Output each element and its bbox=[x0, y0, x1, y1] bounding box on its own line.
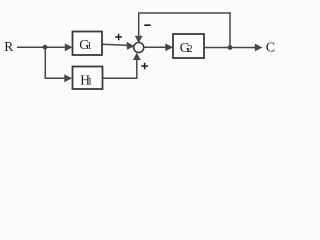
summing junction circle bbox=[134, 43, 144, 53]
arrowhead into G1 bbox=[65, 43, 73, 51]
junction dot after R bbox=[43, 45, 48, 50]
junction dot on output bbox=[228, 45, 233, 50]
wire R to G1 bbox=[17, 46, 67, 48]
arrowhead to C bbox=[255, 44, 263, 52]
arrowhead into G2 bbox=[165, 43, 173, 51]
wire branch down from R node bbox=[44, 47, 46, 78]
plus sign (H1 input to junction) bbox=[141, 63, 148, 70]
svg-text:R: R bbox=[4, 39, 13, 54]
wire G2 to output C bbox=[204, 47, 257, 49]
block G1 bbox=[73, 32, 103, 56]
feedback wire down into junction (top) bbox=[138, 13, 140, 38]
arrowhead into summing junction (top) bbox=[135, 36, 143, 43]
svg-text:1: 1 bbox=[87, 41, 92, 52]
wire junction to G2 bbox=[144, 46, 167, 48]
block H1 bbox=[73, 67, 103, 90]
plus sign (G1 input to junction) bbox=[115, 34, 122, 41]
minus sign (feedback) bbox=[144, 24, 150, 26]
arrowhead into summing junction (bottom) bbox=[133, 53, 141, 60]
svg-text:1: 1 bbox=[87, 77, 92, 88]
feedback wire up from output node bbox=[229, 12, 231, 47]
block G2 bbox=[173, 34, 204, 58]
wire G1 to summing junction bbox=[102, 44, 129, 45]
arrowhead into summing junction (left) bbox=[127, 42, 135, 50]
arrowhead into H1 bbox=[64, 74, 72, 82]
svg-text:2: 2 bbox=[187, 44, 192, 55]
wire branch to H1 bbox=[45, 77, 66, 79]
wire H1 up into junction (bottom) bbox=[136, 59, 138, 79]
svg-text:C: C bbox=[266, 40, 275, 55]
feedback top wire bbox=[138, 12, 231, 14]
wire H1 output to corner bbox=[103, 77, 138, 79]
